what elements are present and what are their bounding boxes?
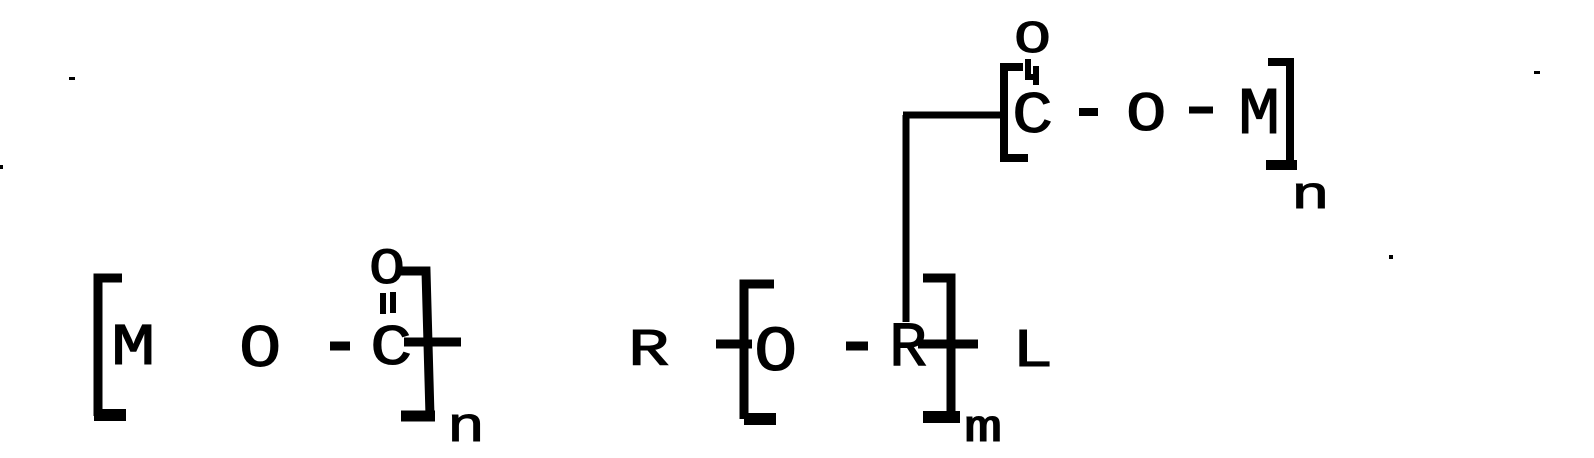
horizontal linker bond to unit 3 xyxy=(903,112,1005,119)
bond R to bracket 2 xyxy=(716,340,752,349)
left bracket of repeat unit 2 xyxy=(744,284,776,419)
double bond C=O (unit 1) xyxy=(383,292,393,314)
left bracket of repeat unit 3 xyxy=(1004,67,1028,158)
right bracket of repeat unit 2 xyxy=(923,278,960,417)
left bracket of repeat unit 1 xyxy=(94,278,126,416)
right bracket of repeat unit 1 xyxy=(399,271,435,416)
svg-text:R: R xyxy=(889,313,927,385)
bond O-C (unit 1) xyxy=(330,342,350,351)
bond O-R (unit 2) xyxy=(846,342,868,351)
svg-text:O: O xyxy=(1014,14,1051,66)
bond O-M (unit 3) xyxy=(1189,107,1213,114)
svg-text:R: R xyxy=(628,321,669,381)
svg-text:O: O xyxy=(239,317,281,385)
svg-text:n: n xyxy=(1291,170,1330,222)
bond through right bracket 2 xyxy=(918,340,978,349)
svg-text:n: n xyxy=(447,400,485,456)
bond C-O (unit 3) xyxy=(1079,108,1098,116)
svg-text:M: M xyxy=(1238,78,1280,154)
double bond mark C=O (unit 3) xyxy=(1025,59,1038,85)
bond through right bracket 1 xyxy=(404,338,461,347)
svg-text:O: O xyxy=(754,318,797,390)
right bracket of repeat unit 3 xyxy=(1266,62,1297,165)
svg-text:C: C xyxy=(1012,85,1053,150)
vertical linker bond from R up xyxy=(903,115,910,322)
svg-text:L: L xyxy=(1012,322,1053,383)
svg-text:m: m xyxy=(964,403,1002,455)
svg-text:O: O xyxy=(1126,83,1166,147)
svg-text:C: C xyxy=(370,317,412,382)
svg-text:M: M xyxy=(111,315,156,382)
